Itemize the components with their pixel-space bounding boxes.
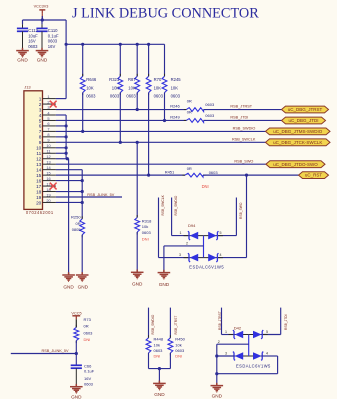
svg-text:20: 20 xyxy=(36,200,42,205)
diode pair D42 lower xyxy=(229,355,268,357)
svg-text:4: 4 xyxy=(39,113,42,118)
net RSB_JLINK_5V (pin19) xyxy=(56,196,122,198)
svg-text:16V: 16V xyxy=(84,376,91,381)
svg-text:10K: 10K xyxy=(86,86,94,91)
svg-text:R70: R70 xyxy=(154,77,162,82)
wire VCC3V3 rail xyxy=(23,19,67,21)
svg-text:J LINK DEBUG CONNECTOR: J LINK DEBUG CONNECTOR xyxy=(72,6,259,22)
svg-text:R245: R245 xyxy=(171,77,182,82)
pin 8 xyxy=(43,136,56,138)
svg-text:R646: R646 xyxy=(86,77,97,82)
svg-text:3: 3 xyxy=(47,105,49,110)
wire to flag xyxy=(204,109,282,111)
resistor R646 10K pullup xyxy=(82,44,84,76)
svg-text:J13: J13 xyxy=(24,85,31,90)
svg-text:0603: 0603 xyxy=(86,94,96,99)
svg-text:2: 2 xyxy=(218,340,220,344)
svg-text:0603: 0603 xyxy=(171,94,181,99)
wire D94 pin5 net column xyxy=(235,198,237,236)
pin 14 xyxy=(43,169,56,171)
svg-text:16V: 16V xyxy=(28,39,36,44)
wire D42 pin2 to GND xyxy=(217,343,249,345)
wire D94 pin4 to RST xyxy=(246,175,248,257)
svg-text:GND: GND xyxy=(78,284,89,289)
svg-text:16: 16 xyxy=(46,176,50,181)
svg-text:14: 14 xyxy=(36,167,42,172)
resistor R73 0R DNI xyxy=(75,319,77,327)
svg-text:10uF: 10uF xyxy=(28,33,38,38)
wire pin 14 to GND bus xyxy=(56,169,82,171)
svg-text:R246: R246 xyxy=(170,103,180,108)
svg-text:0603: 0603 xyxy=(142,230,152,235)
svg-text:GND: GND xyxy=(63,284,74,289)
svg-text:R451: R451 xyxy=(165,170,175,175)
net RSB_SWCLK row (pin9) xyxy=(56,141,266,143)
svg-text:RSB_SWO: RSB_SWO xyxy=(234,159,253,163)
node VCC3V3 junction xyxy=(41,18,44,21)
svg-text:10K: 10K xyxy=(112,86,120,91)
svg-text:16V: 16V xyxy=(48,44,56,49)
svg-text:DNI: DNI xyxy=(175,353,182,358)
svg-text:4: 4 xyxy=(266,352,268,356)
svg-text:VCC5: VCC5 xyxy=(71,311,81,315)
resistor R87 10K pullup xyxy=(136,44,138,76)
svg-text:19: 19 xyxy=(46,192,50,197)
svg-text:0702462001: 0702462001 xyxy=(26,210,54,215)
resistor R451 0R DNI xyxy=(185,173,203,177)
svg-text:RSB_JTRST: RSB_JTRST xyxy=(230,105,252,109)
svg-text:5: 5 xyxy=(220,231,222,235)
svg-text:0603: 0603 xyxy=(175,348,185,353)
ground xyxy=(211,383,224,392)
svg-text:0603: 0603 xyxy=(205,113,215,118)
svg-text:DNI: DNI xyxy=(154,353,161,358)
svg-text:4: 4 xyxy=(220,253,222,257)
wire pin 8 to GND bus xyxy=(56,136,66,138)
svg-text:DNI: DNI xyxy=(202,184,209,189)
wire GND bus B xyxy=(81,170,83,219)
svg-text:R321: R321 xyxy=(109,77,120,82)
resistor R70 10K pullup xyxy=(148,44,150,76)
wire D42 pin1 net column xyxy=(221,308,223,335)
svg-text:D94: D94 xyxy=(188,223,196,228)
net flag uC_DBG_JTCK-SWCLK xyxy=(266,139,331,146)
svg-text:0603: 0603 xyxy=(84,331,94,336)
svg-text:0603: 0603 xyxy=(28,44,38,49)
svg-text:6: 6 xyxy=(47,121,49,126)
wire D42 pin3 xyxy=(217,355,234,357)
svg-text:2: 2 xyxy=(186,241,188,245)
ground xyxy=(36,48,49,57)
svg-text:RSB_JLINK_5V: RSB_JLINK_5V xyxy=(42,349,69,353)
wire pin 6 to GND bus xyxy=(56,125,66,127)
wire pin 16 to GND bus xyxy=(56,180,82,182)
ground xyxy=(131,270,144,279)
ground xyxy=(153,381,166,390)
svg-text:RSB_SWO: RSB_SWO xyxy=(239,202,243,219)
svg-text:0.1uF: 0.1uF xyxy=(84,368,95,373)
wire pin 12 to GND bus xyxy=(56,158,69,160)
pin 12 xyxy=(43,158,56,160)
net flag uC_RST xyxy=(299,172,329,179)
svg-text:0R: 0R xyxy=(75,221,80,226)
pin 11 xyxy=(43,152,56,154)
wire join to GND xyxy=(149,368,171,370)
svg-text:0.1uF: 0.1uF xyxy=(48,33,59,38)
resistor R321 10K pullup xyxy=(119,44,121,76)
svg-text:C110: C110 xyxy=(48,28,58,33)
ground xyxy=(70,384,83,393)
wire D94 common anode xyxy=(203,236,205,258)
svg-text:RSB_SWDIO: RSB_SWDIO xyxy=(233,127,256,131)
wire GND bus A xyxy=(65,115,67,159)
resistor R246 0R xyxy=(186,108,203,112)
svg-text:R318: R318 xyxy=(142,218,152,223)
svg-text:R448: R448 xyxy=(154,336,164,341)
svg-text:GND: GND xyxy=(17,58,28,63)
no-connect pin 2 xyxy=(50,101,57,108)
pin 1 xyxy=(43,98,56,100)
svg-text:0805: 0805 xyxy=(72,227,82,232)
wire D42 pin5 net column xyxy=(280,308,282,335)
svg-text:0603: 0603 xyxy=(48,39,58,44)
connector J13 box xyxy=(24,91,43,210)
pin 2 xyxy=(43,103,56,105)
svg-text:R249: R249 xyxy=(170,114,180,119)
svg-text:1: 1 xyxy=(180,231,182,235)
svg-text:ESDALC6V1W5: ESDALC6V1W5 xyxy=(189,264,224,269)
svg-text:8: 8 xyxy=(39,135,42,140)
node rail junction xyxy=(65,43,68,46)
svg-text:13: 13 xyxy=(36,162,42,167)
svg-text:0603: 0603 xyxy=(110,94,120,99)
wire D42 pin4 wrap to GND xyxy=(262,355,277,357)
pin 16 xyxy=(43,180,56,182)
pin 15 xyxy=(43,174,56,176)
wire D94 pin2 to GND xyxy=(164,245,204,247)
svg-text:RSB_JTDI: RSB_JTDI xyxy=(284,314,288,330)
svg-text:RSB_JLINK_5V: RSB_JLINK_5V xyxy=(87,193,114,197)
capacitor C110 xyxy=(41,20,43,24)
ground xyxy=(158,270,171,279)
svg-text:11: 11 xyxy=(46,149,50,154)
svg-text:uC_DBG_JTDO-SWO: uC_DBG_JTDO-SWO xyxy=(273,162,318,167)
resistor R250 0R xyxy=(80,219,85,235)
svg-text:11: 11 xyxy=(36,151,41,156)
resistor R318 10k DNI pulldown xyxy=(136,142,138,217)
wire to flag xyxy=(204,119,282,121)
svg-text:10k: 10k xyxy=(142,224,148,229)
wire pin 18 to GND bus xyxy=(56,191,82,193)
svg-text:1: 1 xyxy=(225,330,227,334)
ground xyxy=(62,272,75,281)
net RSB_SWO row (pin13) xyxy=(56,163,266,165)
diode pair D42 upper xyxy=(229,334,268,336)
svg-text:RSB_SWDIO: RSB_SWDIO xyxy=(151,314,155,334)
svg-text:1: 1 xyxy=(47,94,49,99)
svg-text:0603: 0603 xyxy=(154,348,164,353)
svg-text:10K: 10K xyxy=(154,86,162,91)
wire pin 4 to GND bus xyxy=(56,114,66,116)
svg-text:5: 5 xyxy=(47,116,49,121)
net RSB_JTRST row (pin3) xyxy=(56,109,186,111)
svg-text:6: 6 xyxy=(39,124,42,129)
wire D94 pin3 net column xyxy=(158,198,160,258)
net RSB_JTDI row (pin5) xyxy=(56,119,186,121)
svg-text:10k: 10k xyxy=(154,342,160,347)
svg-text:19: 19 xyxy=(36,195,42,200)
ground xyxy=(76,272,89,281)
svg-text:GND: GND xyxy=(71,394,82,399)
pin 6 xyxy=(43,125,56,127)
svg-text:10K: 10K xyxy=(171,86,179,91)
wire pin 20 to GND bus xyxy=(56,201,82,203)
wire VCC drop to pin1 xyxy=(65,20,67,99)
svg-text:RSB_JTRST: RSB_JTRST xyxy=(218,311,222,330)
pin 20 xyxy=(43,201,56,203)
svg-text:15: 15 xyxy=(46,170,50,175)
wire D94 pin1 net column xyxy=(171,198,173,236)
svg-text:R250: R250 xyxy=(71,215,81,220)
svg-text:0R: 0R xyxy=(84,324,89,329)
svg-text:0R: 0R xyxy=(187,166,192,171)
svg-text:uC_DBG_JTRST: uC_DBG_JTRST xyxy=(288,107,323,112)
net RSB_RST row (pin15) xyxy=(56,174,185,176)
wire pullup rail xyxy=(66,43,164,45)
svg-text:VCC3V3: VCC3V3 xyxy=(34,5,49,9)
svg-text:uC_DBG_JTDI: uC_DBG_JTDI xyxy=(288,118,318,123)
svg-text:DNI: DNI xyxy=(84,337,91,342)
svg-text:GND: GND xyxy=(154,392,165,397)
svg-text:R450: R450 xyxy=(175,336,185,341)
no-connect pin 17 xyxy=(50,183,57,190)
svg-text:3: 3 xyxy=(39,107,42,112)
svg-text:3: 3 xyxy=(179,253,181,257)
capacitor C112 xyxy=(22,20,24,24)
svg-text:10K: 10K xyxy=(128,86,136,91)
svg-text:RSB_SWCLK: RSB_SWCLK xyxy=(161,194,165,215)
diode pair D94 lower xyxy=(184,257,223,259)
pin 19 xyxy=(43,196,56,198)
svg-text:7: 7 xyxy=(39,129,42,134)
svg-text:13: 13 xyxy=(46,159,50,164)
svg-text:D42: D42 xyxy=(234,325,242,330)
net flag uC_DBG_JTDI xyxy=(282,117,326,124)
pin 9 xyxy=(43,141,56,143)
svg-text:16: 16 xyxy=(36,178,42,183)
pin 18 xyxy=(43,191,56,193)
wire to flag xyxy=(203,174,299,176)
svg-text:RSB_JTRST: RSB_JTRST xyxy=(174,316,178,335)
svg-text:0R: 0R xyxy=(187,109,192,114)
svg-text:5: 5 xyxy=(39,118,42,123)
net RSB_SWDIO row (pin7) xyxy=(56,130,266,132)
net flag uC_DBG_JTMS-SWDIO xyxy=(266,128,331,135)
ground xyxy=(16,48,29,57)
net flag uC_DBG_JTRST xyxy=(282,106,329,113)
svg-text:0603: 0603 xyxy=(205,102,215,107)
svg-text:R73: R73 xyxy=(84,317,92,322)
svg-text:GND: GND xyxy=(37,58,48,63)
svg-text:GND: GND xyxy=(212,394,223,399)
svg-text:GND: GND xyxy=(159,282,170,287)
svg-text:uC_DBG_JTCK-SWCLK: uC_DBG_JTCK-SWCLK xyxy=(273,140,322,145)
svg-text:9: 9 xyxy=(47,138,49,143)
svg-text:1: 1 xyxy=(39,96,42,101)
wire D42 common anode xyxy=(248,335,250,357)
pin 13 xyxy=(43,163,56,165)
svg-text:9: 9 xyxy=(39,140,42,145)
resistor R448 10k DNI xyxy=(148,308,150,338)
svg-text:12: 12 xyxy=(46,154,50,159)
capacitor C66 xyxy=(71,364,82,366)
pin 4 xyxy=(43,114,56,116)
pin 17 xyxy=(43,185,56,187)
pin 10 xyxy=(43,147,56,149)
svg-text:10: 10 xyxy=(36,146,42,151)
wire pin11 RTCK to GND xyxy=(56,152,66,154)
svg-text:0R: 0R xyxy=(187,98,192,103)
resistor R249 0R xyxy=(186,119,203,123)
svg-text:10k: 10k xyxy=(175,342,181,347)
svg-text:0603: 0603 xyxy=(154,94,164,99)
svg-text:8: 8 xyxy=(47,132,49,137)
svg-text:0603: 0603 xyxy=(209,170,219,175)
svg-text:2: 2 xyxy=(39,102,42,107)
svg-text:0603: 0603 xyxy=(84,381,94,386)
svg-text:R87: R87 xyxy=(128,77,136,82)
svg-text:7: 7 xyxy=(47,127,49,132)
wire pin1 to VCC xyxy=(56,98,66,100)
svg-text:GND: GND xyxy=(132,282,143,287)
resistor R450 10k DNI xyxy=(169,308,171,338)
net RSB_JLINK_5V wire xyxy=(11,353,77,355)
svg-text:ESDALC6V1W5: ESDALC6V1W5 xyxy=(236,364,271,369)
svg-text:DNI: DNI xyxy=(142,236,149,241)
svg-text:uC_DBG_JTMS-SWDIO: uC_DBG_JTMS-SWDIO xyxy=(273,129,323,134)
pin 3 xyxy=(43,109,56,111)
svg-text:18: 18 xyxy=(36,189,42,194)
svg-text:0603: 0603 xyxy=(126,94,136,99)
svg-text:5: 5 xyxy=(266,330,268,334)
net flag uC_DBG_JTDO-SWO xyxy=(266,161,325,168)
svg-text:RSB_SWCLK: RSB_SWCLK xyxy=(232,138,256,142)
pin 5 xyxy=(43,119,56,121)
diode pair D94 upper xyxy=(184,235,223,237)
resistor R245 10K pullup xyxy=(164,44,166,76)
svg-text:12: 12 xyxy=(36,157,42,162)
wire pin 10 to GND bus xyxy=(56,147,66,149)
svg-text:3: 3 xyxy=(225,352,227,356)
pin 7 xyxy=(43,130,56,132)
svg-text:RSB_SWDIO: RSB_SWDIO xyxy=(174,195,178,215)
svg-text:17: 17 xyxy=(36,184,42,189)
svg-text:RSB_JTDI: RSB_JTDI xyxy=(230,116,248,120)
svg-text:15: 15 xyxy=(36,173,42,178)
svg-text:2: 2 xyxy=(47,99,49,104)
svg-text:uC_RST: uC_RST xyxy=(305,173,323,178)
